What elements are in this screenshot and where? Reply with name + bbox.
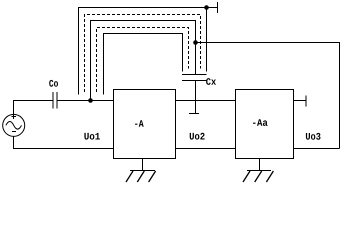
terminal bar top right: [217, 2, 219, 13]
wire: signal from Co right plate to -A input: [57, 100, 114, 102]
ac source V: [3, 114, 25, 136]
node label Uo3: [306, 133, 321, 140]
amplifier block -A: [114, 90, 176, 159]
capacitor Co: [53, 92, 57, 109]
ground under -A: [126, 159, 156, 183]
wire: Cx bottom lead to guard terminal: [195, 81, 197, 114]
shield 5 inner solid: [104, 34, 183, 95]
terminal bar below Cx: [189, 113, 199, 115]
junction dot at shield/terminal: [204, 5, 209, 10]
ground under -Aa: [243, 159, 273, 183]
wire: feedback right rail: [196, 43, 340, 149]
shield 1 outer solid: [79, 8, 207, 95]
shield 2 dashed: [85, 15, 201, 93]
node label Uo1: [84, 133, 100, 140]
junction dot at shield3/input wire: [88, 98, 93, 103]
wire: bottom rail between -A and -Aa: [176, 148, 236, 150]
shield 4 dashed: [97, 28, 189, 93]
label -A: [135, 120, 144, 127]
wire: Uo3 from -Aa output to terminal: [294, 100, 307, 102]
wire: source bottom lead: [14, 137, 114, 149]
capacitor Cx: [182, 75, 207, 114]
wire: top signal rail from source to Co left plate: [14, 101, 54, 115]
wire: bottom rail from -Aa to right feedback rail: [294, 148, 340, 150]
amplifier block -Aa: [236, 90, 294, 159]
label Co: [49, 80, 58, 87]
label Cx: [206, 78, 216, 85]
output terminal bar after -Aa: [305, 96, 307, 107]
wire: Uo2 signal from -A output to -Aa input: [176, 100, 236, 102]
wire: shield to top-right terminal: [207, 7, 218, 9]
label -Aa: [253, 119, 268, 126]
shield 3 middle solid: [91, 21, 196, 101]
junction dot at feedback tap: [193, 40, 198, 45]
node label Uo2: [190, 133, 205, 140]
